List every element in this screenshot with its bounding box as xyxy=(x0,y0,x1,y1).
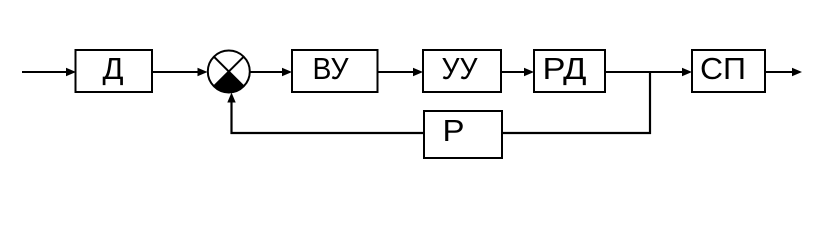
svg-text:Р: Р xyxy=(443,113,465,148)
wire РД to СП xyxy=(605,71,686,73)
svg-text:УУ: УУ xyxy=(442,51,478,86)
arrowhead output xyxy=(792,68,802,76)
block СП xyxy=(692,50,765,92)
arrowhead into summer bottom xyxy=(227,93,235,103)
wire input xyxy=(22,71,70,73)
arrowhead into summer xyxy=(198,68,208,76)
block Р xyxy=(424,111,502,158)
wire up to summer xyxy=(230,100,232,134)
wire summer to ВУ xyxy=(250,71,286,73)
svg-text:ВУ: ВУ xyxy=(313,51,349,86)
node feedback tap xyxy=(649,72,651,134)
wire Р to summer leg xyxy=(231,132,425,134)
summing junction xyxy=(208,51,250,93)
svg-text:СП: СП xyxy=(700,51,746,86)
wire УУ to РД xyxy=(501,71,528,73)
svg-text:Д: Д xyxy=(103,51,124,86)
block РД xyxy=(534,50,605,92)
wire tap to Р xyxy=(502,132,651,134)
block Д xyxy=(76,50,153,92)
arrowhead into УУ xyxy=(413,68,423,76)
arrowhead into Д xyxy=(66,68,76,76)
wire ВУ to УУ xyxy=(378,71,418,73)
wire Д to summer xyxy=(152,71,201,73)
arrowhead into РД xyxy=(524,68,534,76)
arrowhead into СП xyxy=(682,68,692,76)
svg-text:РД: РД xyxy=(543,51,587,86)
block УУ xyxy=(423,50,501,92)
arrowhead into ВУ xyxy=(282,68,292,76)
block ВУ xyxy=(292,50,378,92)
wire output xyxy=(765,71,796,73)
